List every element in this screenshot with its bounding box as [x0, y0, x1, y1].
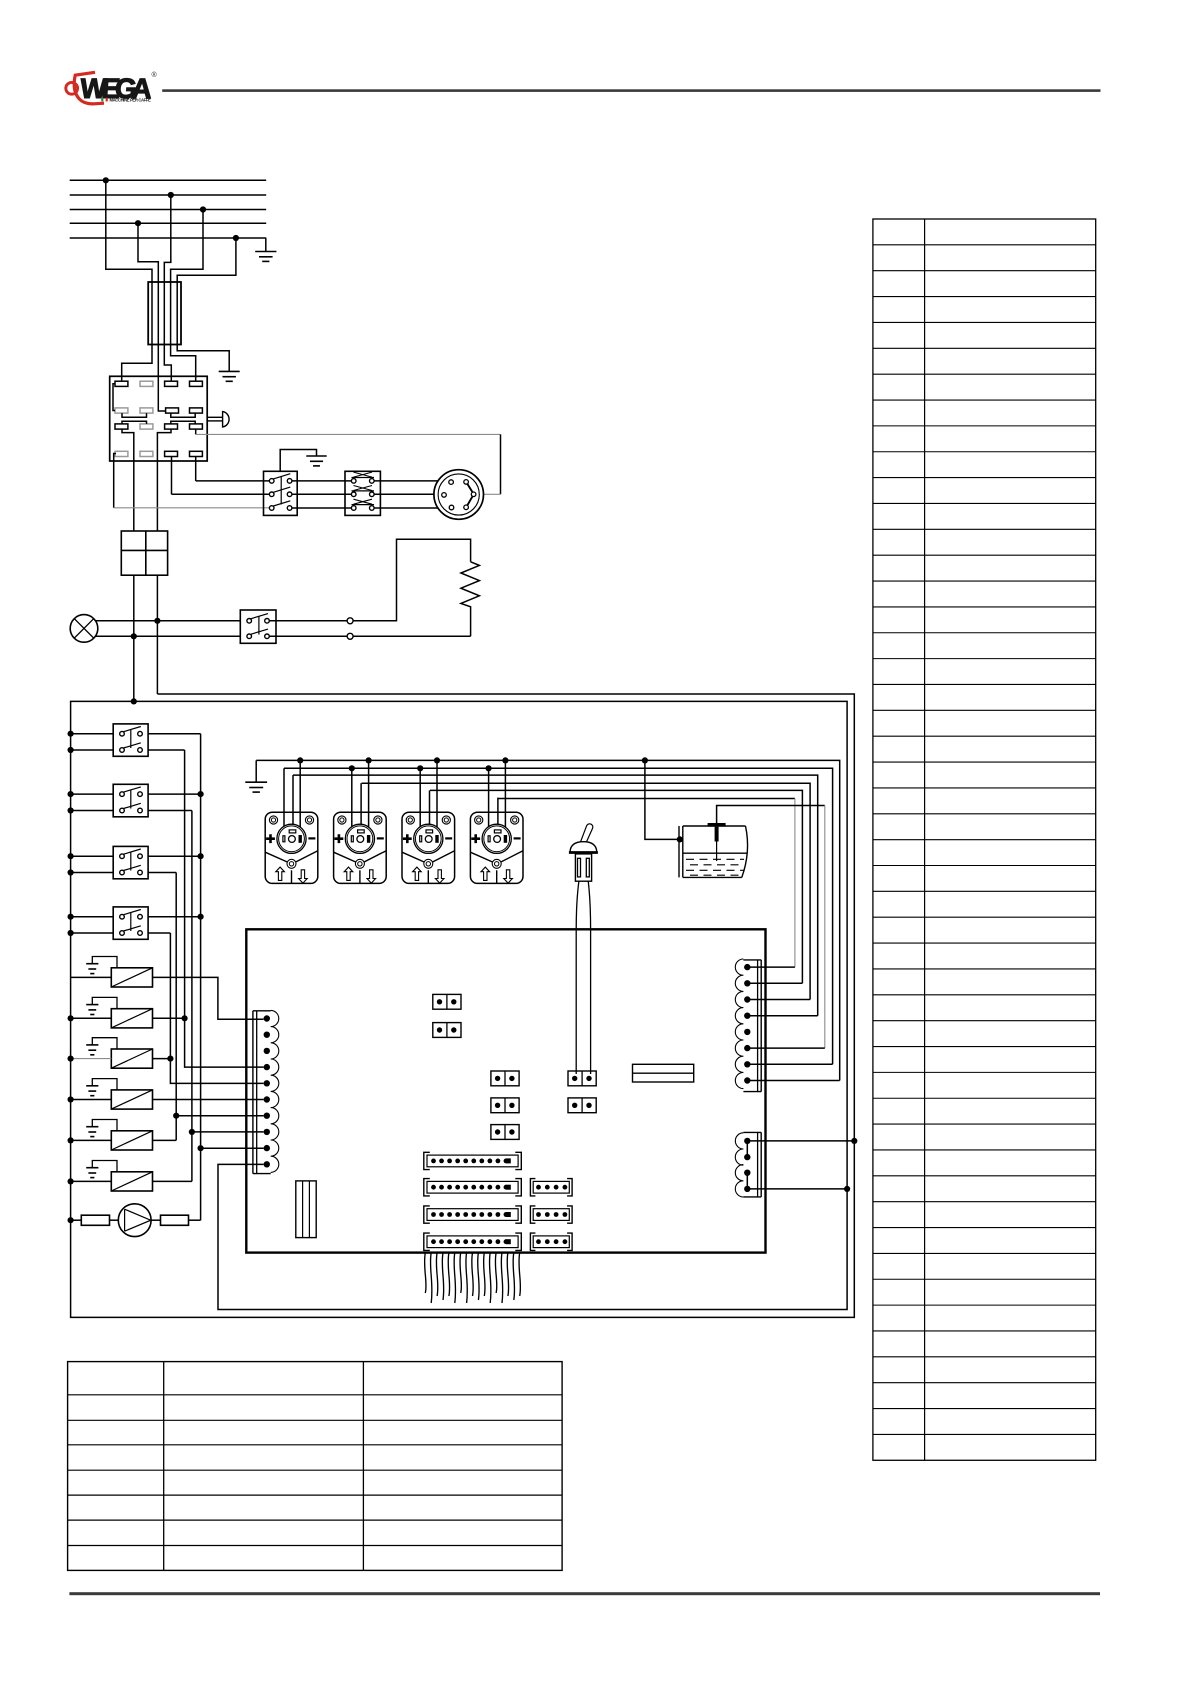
- relay K5: [111, 1090, 152, 1109]
- trunk wire S4 bottom: [170, 933, 263, 1083]
- logo subtitle MACCHINE PER CAFFE: [110, 98, 152, 103]
- earth symbol E2: [219, 371, 240, 381]
- solenoid valve EV2: [334, 812, 387, 883]
- valve EV3 right riser: [436, 760, 438, 836]
- lamp wire lower: [95, 635, 240, 637]
- valve EV2 right riser: [368, 760, 370, 836]
- logo flag red: [106, 98, 108, 102]
- junction border S3 top: [68, 853, 74, 859]
- wire relay K2 to pin1: [153, 977, 264, 1019]
- wire CN1 pin2: [747, 982, 802, 984]
- Q1 link row1-row2 col1: [113, 384, 115, 411]
- main switch Q1 body: [110, 376, 208, 461]
- junction trunk pin8: [189, 1129, 195, 1135]
- junction earth bus EV1: [297, 757, 303, 763]
- toggle switch S5: [569, 824, 598, 881]
- wire pin8: [192, 1131, 264, 1133]
- wire S1 top to bus: [148, 733, 201, 735]
- water tank: [679, 826, 748, 877]
- jumper J7: [568, 1098, 596, 1113]
- valve EV2 signal wire: [362, 783, 811, 999]
- wire contactor to overload pole1: [292, 480, 352, 482]
- ribbon cable: [425, 1253, 521, 1303]
- solenoid valve EV1: [265, 812, 318, 883]
- wire border to relay K3: [71, 1017, 112, 1019]
- valve EV3 top riser: [429, 790, 431, 830]
- wire CN1 pin6: [747, 1047, 825, 1049]
- jumper J5: [491, 1125, 519, 1140]
- wire border to S1 bottom: [71, 749, 114, 751]
- valve EV4 signal wire: [498, 799, 795, 968]
- valve EV3 left riser: [419, 768, 421, 836]
- valve EV4 left riser: [488, 768, 490, 836]
- junction fuse left on loop: [131, 698, 137, 704]
- valve EV1 right riser: [299, 760, 301, 836]
- mains line L2: [70, 194, 267, 196]
- relay K2 earth wire: [92, 957, 117, 968]
- wire switch to terminal upper: [269, 620, 347, 622]
- junction border S1 bottom: [68, 747, 74, 753]
- thermal overload F1: [345, 471, 380, 515]
- motor M1: [434, 470, 484, 520]
- junction border S4 bottom: [68, 930, 74, 936]
- wire S4 bottom trunk: [148, 932, 170, 934]
- fuse F2a lower wire: [133, 575, 135, 701]
- WEGA logo text: [79, 71, 157, 104]
- wire L2 to cable: [164, 195, 171, 282]
- trunk wire S2 bottom: [191, 811, 193, 1182]
- safety switch S0: [240, 610, 276, 643]
- fuse block F2 body: [121, 531, 167, 575]
- mains line L3: [70, 209, 267, 211]
- junction border S3 bottom: [68, 869, 74, 875]
- switch S4: [113, 907, 148, 939]
- toggle header J6: [568, 1071, 596, 1086]
- relay K6 earth wire: [92, 1120, 117, 1131]
- relay K5 earth wire: [92, 1079, 117, 1090]
- wire border to fuse F3: [71, 1219, 82, 1221]
- display connector CN7: [424, 1233, 522, 1250]
- junction common bus EV3: [417, 765, 423, 771]
- relay K2: [111, 968, 152, 987]
- valve EV1 top riser: [292, 775, 294, 830]
- motor feed wire (gray): [196, 433, 501, 435]
- indicator lamp H1: [70, 615, 98, 643]
- earth symbol relay K3: [86, 1005, 98, 1015]
- connector CN9: [530, 1206, 572, 1223]
- toggle wire left: [576, 881, 579, 1074]
- legend table bottom: [68, 1362, 562, 1571]
- wire CN1 pin7: [747, 1063, 832, 1065]
- Q1 row4col1 wire to contactor: [114, 454, 116, 508]
- wire contactor to overload pole2: [292, 493, 352, 495]
- switch S1: [113, 724, 148, 756]
- motor star point links: [467, 484, 472, 506]
- junction earth bus EV4: [502, 757, 508, 763]
- trunk wire switch-tops to pump: [200, 734, 202, 1220]
- jumper J1: [433, 994, 461, 1009]
- wire border to S2 bottom: [71, 810, 114, 812]
- contactor K1 link: [280, 477, 282, 505]
- wire CN1 pin8: [747, 1080, 839, 1082]
- legend table right: [873, 219, 1096, 1460]
- jumper J4: [491, 1098, 519, 1113]
- wire cable to switch terminal 3: [164, 345, 171, 382]
- WEGA logo red cup: [66, 72, 104, 104]
- junction border relay K3: [68, 1015, 74, 1021]
- tank water level: [683, 852, 747, 854]
- wire L5 to cable: [177, 238, 236, 282]
- wire CN2 pin4: [747, 1188, 847, 1190]
- fuse F4: [161, 1215, 189, 1225]
- junction trunk pin7: [173, 1113, 179, 1119]
- junction on L1: [103, 177, 109, 183]
- relay K4: [111, 1049, 152, 1068]
- junction trunk relay3: [167, 1056, 173, 1062]
- probe wire: [717, 806, 825, 824]
- wire S2 bottom trunk: [148, 810, 192, 812]
- bottom horizontal rule: [69, 1592, 1100, 1595]
- Q1 row4col3 wire: [171, 457, 173, 495]
- relay K7 earth wire: [92, 1161, 117, 1172]
- connector CN8: [530, 1179, 572, 1196]
- connector CN10: [530, 1233, 572, 1250]
- junction border S2 top: [68, 791, 74, 797]
- wire border to relay K2: [71, 976, 112, 978]
- trunk wire S1 bottom: [185, 750, 264, 1067]
- jumper block J8: [296, 1181, 316, 1238]
- wire overload to motor V: [374, 493, 442, 495]
- wire border to relay K4: [71, 1058, 112, 1060]
- toggle wire right: [588, 881, 590, 1074]
- jumper J3: [491, 1071, 519, 1086]
- wire cable to switch terminal 4: [171, 345, 196, 382]
- main switch Q1 spare terminals: [115, 381, 153, 456]
- wire border to S4 bottom: [71, 932, 114, 934]
- wire CN2 pin1: [747, 1140, 854, 1142]
- junction bus S3: [198, 853, 204, 859]
- relay K6: [111, 1131, 152, 1150]
- connector CN1 8-pin: [735, 959, 761, 1092]
- Q1 bridge row2 left: [122, 413, 147, 417]
- display connector CN6: [424, 1206, 522, 1223]
- logo flag green: [101, 98, 103, 102]
- valve earth bus: [256, 760, 840, 1080]
- valve EV1 signal wire: [293, 775, 818, 1016]
- wire S3 bottom trunk: [148, 872, 176, 874]
- relay K3: [111, 1009, 152, 1028]
- Q1 bridge row3 right: [171, 421, 195, 424]
- earth wire from cable: [177, 345, 229, 372]
- wire relay K3 trunk: [153, 1017, 185, 1019]
- wire S1 bottom trunk: [148, 749, 185, 751]
- junction common bus EV4: [486, 765, 492, 771]
- Q1 row4col4 wire: [195, 457, 197, 481]
- terminal upper: [347, 618, 353, 624]
- earth symbol E1: [255, 252, 276, 262]
- earth symbol relay K7: [86, 1168, 98, 1178]
- junction tank wall: [677, 836, 683, 842]
- wire CN1 pin4: [747, 1015, 817, 1017]
- junction on L3: [200, 206, 206, 212]
- wire border to S3 top: [71, 855, 114, 857]
- wire cable to switch row2: [158, 345, 165, 412]
- PCB board A1: [246, 929, 765, 1252]
- fuse F2b lower wire: [156, 575, 158, 694]
- wire relay K7 trunk: [153, 1180, 192, 1182]
- cable conductor 2: [157, 282, 159, 345]
- junction border S1 top: [68, 731, 74, 737]
- wire pin7: [176, 1115, 263, 1117]
- connector CN2 4-pin: [735, 1132, 761, 1197]
- wire overload to motor U: [374, 480, 449, 482]
- valve EV4 top riser: [497, 798, 499, 831]
- junction trunk relay2: [182, 1015, 188, 1021]
- solenoid valve EV3: [402, 812, 455, 883]
- earth symbol relay K4: [86, 1045, 98, 1055]
- cable conductor 4: [170, 282, 172, 345]
- valve common bus: [284, 768, 833, 1064]
- jumper J2: [433, 1023, 461, 1038]
- Q1 bridge row2 right: [171, 413, 195, 417]
- wire overload to motor W: [374, 507, 449, 509]
- wire L3 to cable: [171, 210, 203, 283]
- wire element to terminal lower: [353, 635, 471, 637]
- contactor earth wire: [280, 450, 316, 472]
- earth bus drop: [255, 760, 257, 782]
- solenoid valve EV4: [470, 812, 523, 883]
- valve EV4 right riser: [504, 760, 506, 836]
- Q1 row3col4 motor feed stub: [195, 429, 197, 434]
- Q1 row3col1 to fuse wire: [122, 429, 134, 531]
- junction earth bus EV3: [434, 757, 440, 763]
- earth wire from L5: [265, 238, 267, 252]
- wire CN1 pin3: [747, 999, 810, 1001]
- junction fuse-lamp lower: [131, 633, 137, 639]
- wire relay K4 trunk: [153, 1058, 171, 1060]
- Q1 bridge row3 left: [122, 421, 147, 424]
- lamp wire upper: [95, 620, 240, 622]
- cable conductor 1: [151, 282, 153, 345]
- junction border relay K5: [68, 1096, 74, 1102]
- wire border to S1 top: [71, 733, 114, 735]
- junction earth bus tank: [642, 757, 648, 763]
- wire relay K5 to pin6: [153, 1099, 264, 1101]
- cable conductor 3: [163, 282, 165, 345]
- motor feed into motor (gray): [476, 493, 501, 495]
- boiler element R1: [461, 562, 480, 637]
- contactor pole1 feed: [196, 480, 270, 482]
- wire cable to switch terminal 1: [122, 345, 152, 382]
- motor feed drop: [500, 434, 502, 494]
- contactor K1: [264, 471, 298, 515]
- supply cable sheath: [148, 282, 181, 345]
- wire fuse F3 to pump: [110, 1219, 119, 1221]
- wire contactor to overload pole3: [292, 507, 352, 509]
- valve EV3 signal wire: [430, 790, 803, 983]
- wire CN1 pin1: [747, 966, 795, 968]
- probe drop (gray): [824, 806, 826, 1049]
- junction border S4 top: [68, 914, 74, 920]
- wire terminal to switch lower: [269, 635, 347, 637]
- relay K3 earth wire: [92, 997, 117, 1008]
- earth symbol relay K5: [86, 1086, 98, 1096]
- pump M2: [118, 1204, 151, 1237]
- switch S3: [113, 846, 148, 878]
- valve EV2 left riser: [351, 768, 353, 836]
- main switch Q1 terminals: [115, 381, 202, 456]
- display connector CN4: [424, 1152, 522, 1169]
- junction on L4: [135, 220, 141, 226]
- junction CN2 pin4 on loop: [844, 1186, 850, 1192]
- wire fuse F4 to trunk: [189, 1219, 201, 1221]
- earth symbol relay K2: [86, 964, 98, 974]
- switch S2: [113, 784, 148, 817]
- Q1 row3col3 to fuse wire: [157, 429, 171, 531]
- main circuit loop wire: [71, 694, 855, 1317]
- junction earth bus EV2: [366, 757, 372, 763]
- Q1 operating handle: [207, 412, 229, 427]
- wire border to S3 bottom: [71, 872, 114, 874]
- junction border pump: [68, 1217, 74, 1223]
- fuse F3: [81, 1215, 109, 1225]
- junction border relay K7: [68, 1178, 74, 1184]
- junction common bus EV2: [349, 765, 355, 771]
- wire pump to fuse F4: [151, 1219, 160, 1221]
- tank earth drop: [645, 760, 679, 839]
- mains line L1: [70, 179, 267, 181]
- wire border to S2 top: [71, 793, 114, 795]
- wire border to relay K6: [71, 1139, 112, 1141]
- junction bus S4: [198, 914, 204, 920]
- component X1: [633, 1064, 694, 1082]
- junction on L5: [233, 235, 239, 241]
- top horizontal rule: [162, 89, 1100, 92]
- wire pin9: [201, 1147, 264, 1149]
- wire S4 top to bus: [148, 916, 201, 918]
- relay K4 earth wire: [92, 1038, 117, 1049]
- earth symbol relay K6: [86, 1127, 98, 1137]
- mains line L5: [70, 237, 267, 239]
- terminal lower: [347, 633, 353, 639]
- valve EV1 left riser: [283, 768, 285, 836]
- junction border S2 bottom: [68, 807, 74, 813]
- level probe: [708, 823, 726, 861]
- junction on L2: [168, 192, 174, 198]
- junction bus S2: [198, 791, 204, 797]
- trunk wire S3 bottom: [175, 873, 177, 1141]
- wire terminal to element top: [353, 539, 471, 621]
- junction border relay K6: [68, 1137, 74, 1143]
- junction trunk pin9: [198, 1145, 204, 1151]
- display connector CN5: [424, 1179, 522, 1196]
- tank water dashes: [686, 859, 744, 875]
- svg-text:®: ®: [152, 71, 158, 79]
- relay K7: [111, 1172, 152, 1191]
- wire border to relay K5: [71, 1099, 112, 1101]
- contactor pole2 feed: [172, 493, 270, 495]
- wire border to S4 top: [71, 916, 114, 918]
- junction fuse-lamp upper: [154, 618, 160, 624]
- svg-text:MACCHINE PER CAFFÈ: MACCHINE PER CAFFÈ: [110, 98, 152, 103]
- connector CN3 10-pin: [253, 1010, 279, 1173]
- cable conductor 5: [176, 282, 178, 345]
- wire S3 top to bus: [148, 855, 201, 857]
- wire relay K6 trunk: [153, 1139, 177, 1141]
- contactor pole3 feed (gray): [114, 507, 270, 509]
- junction CN2 pin1 on loop: [851, 1138, 857, 1144]
- junction border relay K4: [68, 1056, 74, 1062]
- mains line L4: [70, 222, 267, 224]
- wire border to relay K7: [71, 1180, 112, 1182]
- wire L1 to cable: [106, 180, 152, 282]
- earth symbol E3: [306, 456, 326, 466]
- wire S2 top to bus: [148, 793, 201, 795]
- earth symbol E4: [245, 782, 267, 792]
- wire L4 to cable: [138, 223, 158, 282]
- valve EV2 top riser: [360, 783, 362, 830]
